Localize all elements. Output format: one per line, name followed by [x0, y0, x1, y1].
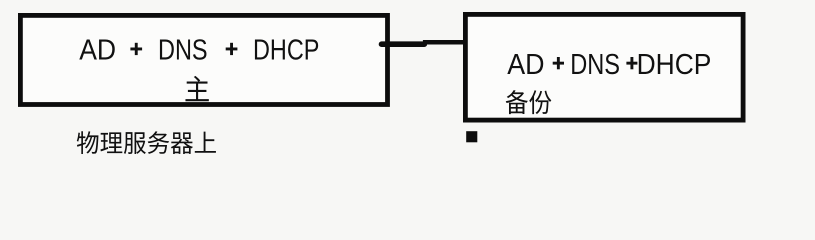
svg-text:DHCP: DHCP [253, 35, 319, 67]
text label "主" [185, 76, 208, 101]
svg-text:AD: AD [507, 49, 544, 81]
svg-text:DHCP: DHCP [637, 49, 712, 81]
text: 备份 (backup) inside right box [506, 90, 552, 114]
text label "理" [100, 132, 122, 153]
plus sign 2 right box [626, 62, 637, 65]
svg-text:DNS: DNS [158, 35, 208, 67]
box: backup server (right) [465, 14, 743, 120]
text right box line1: AD + DNS +DHCP [507, 49, 711, 81]
plus sign 1 right box [553, 62, 564, 65]
wire: connector right segment [423, 40, 468, 45]
text left box line1: AD + DNS + DHCP [79, 35, 319, 67]
box: primary server (left) [20, 15, 387, 104]
plus sign 2 left box [226, 48, 238, 51]
plus sign 1 left box [130, 48, 142, 51]
wire: connector left segment [382, 41, 425, 47]
text label "物" [77, 131, 99, 154]
text label "备" [506, 90, 528, 114]
text label "上" [195, 132, 216, 153]
node: small black square marker [466, 131, 477, 142]
text label "服" [124, 132, 146, 154]
text label "务" [148, 131, 170, 154]
text label "份" [529, 90, 551, 114]
svg-text:AD: AD [79, 35, 116, 67]
svg-text:DNS: DNS [570, 49, 620, 81]
text: 物理服务器上 (on physical server) below left box [77, 131, 216, 154]
text: 主 (main) inside left box [185, 76, 208, 101]
text label "器" [171, 132, 193, 154]
